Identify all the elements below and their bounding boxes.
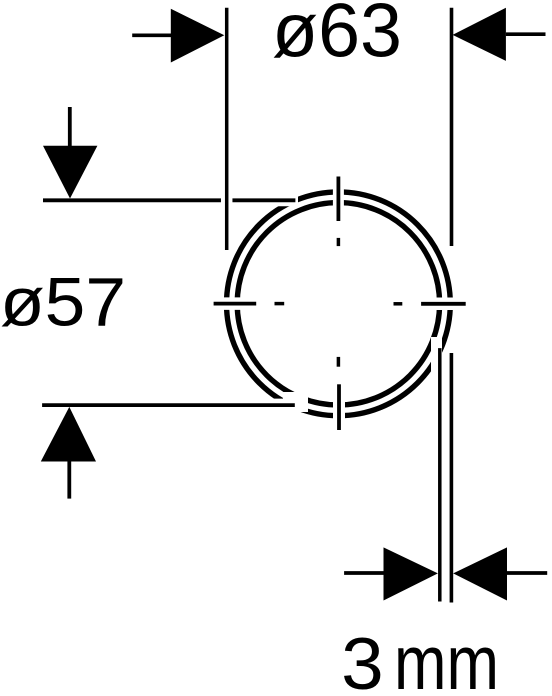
inner circle (pipe bore, ø57) <box>237 203 439 405</box>
ø63 left arrowhead <box>171 9 225 63</box>
3mm right arrow tail <box>507 571 547 575</box>
white halo under right 3mm extension line <box>447 350 455 607</box>
white halo under bottom centerline tick <box>333 382 345 432</box>
3mm left extension line <box>438 348 442 601</box>
ø57 bottom arrow tail <box>67 462 71 499</box>
outer circle (pipe outside, ø63) <box>227 192 451 416</box>
right centerline tick <box>421 302 466 306</box>
white halo under top centerline tick <box>333 174 344 223</box>
3mm left arrow tail <box>344 571 386 575</box>
svg-text:ø63: ø63 <box>272 0 402 73</box>
white halo under right centerline tick <box>419 298 468 311</box>
ø63 right extension line <box>450 8 454 246</box>
ø57 top dimension line <box>43 198 295 202</box>
white halo under lower ø57 dimension line end <box>283 392 308 412</box>
ø63 left arrow tail <box>132 33 171 37</box>
ø63 right arrowhead <box>453 8 506 61</box>
3mm right extension line <box>450 353 454 603</box>
top centerline tick <box>336 177 340 222</box>
ø63 right arrow tail <box>506 32 546 36</box>
ø57 top arrowhead (pointing down) <box>43 146 97 199</box>
3mm left arrowhead (pointing right) <box>384 547 438 600</box>
left centerline tick <box>214 302 257 306</box>
ø57 top arrow tail <box>68 107 72 146</box>
svg-text:mm: mm <box>394 620 499 696</box>
centerline short dash above center <box>337 238 341 246</box>
white halo under upper ø57 dimension line end <box>40 194 298 206</box>
ø63 left extension line <box>225 8 229 250</box>
svg-text:3: 3 <box>341 624 384 696</box>
3mm right arrowhead (pointing left) <box>453 547 507 600</box>
white halo under ø63 left extension line (cuts ø57 line) <box>221 190 233 212</box>
centerline short dash left of center <box>275 302 285 306</box>
white halo under left centerline tick <box>211 297 258 310</box>
ø57 bottom dimension line <box>42 403 295 407</box>
bottom centerline tick <box>337 384 341 430</box>
svg-text:ø57: ø57 <box>0 264 126 340</box>
centerline short dash right of center <box>394 302 403 306</box>
white halo under left 3mm extension line <box>431 337 442 607</box>
centerline short dash below center <box>337 357 341 367</box>
ø57 bottom arrowhead (pointing up) <box>41 407 96 462</box>
